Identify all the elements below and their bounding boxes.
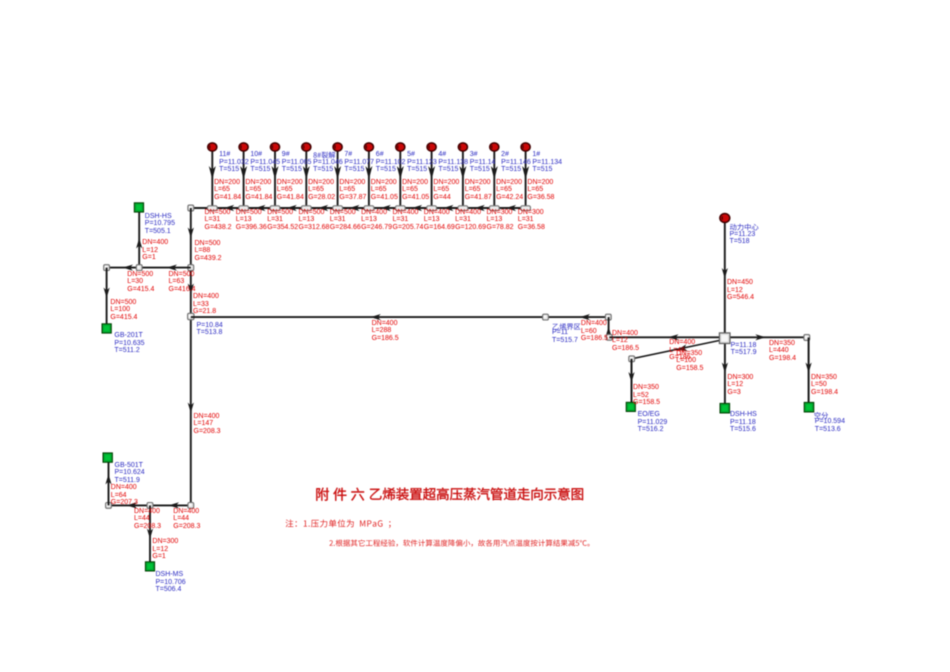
node header west corner [188, 205, 194, 211]
arrow down on middle trunk [188, 284, 194, 295]
label furnace 6# name/P/T [376, 151, 406, 174]
furnace 5# riser pipe [399, 151, 401, 209]
furnace 11# terminal circle [208, 143, 217, 151]
label branch seg DN=500 L=30 [127, 271, 154, 294]
note 1 (pressure unit) [286, 519, 391, 528]
terminal DSH-HS center green square [720, 403, 730, 413]
label furnace 8# feed pipe [308, 179, 335, 202]
arrow down on 3# riser [459, 166, 466, 180]
node corner bottom west [106, 503, 112, 509]
long pipe to ethylene area (DN=400 L=288) [191, 316, 609, 318]
arrow down on 10# riser [240, 166, 247, 180]
arrow left on bottom pipe seg2 [169, 502, 180, 508]
furnace 4# riser pipe [431, 151, 433, 209]
label power center P/T [730, 231, 756, 246]
label air separation name (空分) [814, 412, 828, 419]
furnace 8# riser pipe [305, 151, 307, 209]
label header segment 3 [267, 209, 298, 232]
label DSH-MS drop pipe [152, 538, 178, 561]
label air separation drop pipe [811, 374, 838, 397]
label furnace 2# name/P/T [501, 151, 531, 174]
furnace 2# riser pipe [493, 151, 495, 209]
label central junction P/T [731, 342, 757, 357]
label DSH-MS name/P/T [156, 571, 186, 594]
terminal air separation green square [804, 402, 814, 412]
node corner west [104, 265, 110, 271]
node tee DSH-MS [147, 503, 153, 509]
node tee 11# on header [207, 206, 217, 211]
label power center name (动力中心) [730, 224, 759, 231]
furnace 1# riser pipe [525, 151, 527, 209]
label header segment 7 [393, 209, 424, 232]
arrow down on air separation drop [806, 363, 812, 374]
pipe down to GB-201T [106, 268, 108, 324]
node ethylene tap [543, 314, 549, 320]
label ethylene area name (乙烯界区) [553, 323, 581, 330]
arrow down on 7# riser [334, 166, 341, 180]
arrow left on header segment 2 [255, 205, 266, 211]
node junction trunk/long line [188, 313, 194, 319]
arrow left near ethylene area [580, 314, 591, 320]
furnace 5# terminal circle [396, 143, 405, 151]
arrow left on header segment 5 [349, 205, 360, 211]
label long pipe DN=400 L=288 [372, 320, 399, 343]
label DSH-HS riser pipe [142, 239, 168, 262]
furnace 8# terminal circle [302, 143, 311, 151]
node corner EO/EG [629, 356, 635, 362]
label furnace 3# name/P/T [470, 151, 496, 174]
terminal power center red circle [720, 213, 730, 222]
trunk pipe upper (DN=500 L=88) [190, 208, 192, 268]
label furnace 1# name/P/T [532, 151, 562, 174]
arrow left on branch seg 1 [123, 265, 134, 271]
furnace 9# terminal circle [270, 143, 279, 151]
node tee 5# on header [395, 206, 405, 211]
label DSH-HS center name/P/T [730, 411, 757, 434]
trunk pipe middle (DN=400 L=33) [190, 268, 192, 317]
node corner trunk bottom [188, 503, 194, 509]
label bottom pipe seg left [134, 508, 161, 531]
label furnace 3# feed pipe [465, 179, 492, 202]
terminal DSH-HS (top-left) green square [134, 203, 143, 212]
arrow down on DSH-HS center drop [722, 363, 728, 374]
furnace 4# terminal circle [427, 143, 436, 151]
terminal GB-501T green square [103, 453, 112, 462]
arrow left on header segment 8 [443, 205, 454, 211]
label header segment 2 [236, 209, 267, 232]
furnace 1# terminal circle [521, 143, 530, 151]
arrow left on header segment 9 [474, 205, 485, 211]
label header segment 8 [424, 209, 455, 232]
arrow down on 1# riser [522, 166, 529, 180]
node corner air separation [804, 335, 810, 341]
label trunk middle pipe [193, 293, 219, 316]
label junction P/T (P=10.84) [197, 322, 223, 337]
arrow down to GB-201T [104, 288, 110, 299]
label bottom pipe seg right [173, 508, 200, 531]
label diagonal pipe A (overlapped) [669, 339, 695, 362]
title part 1 (附件六) [316, 488, 364, 501]
arrow left on branch seg 2 [167, 265, 178, 271]
label air separation pipe [769, 340, 796, 363]
label ethylene area P/T [552, 329, 578, 344]
label trunk upper pipe [195, 240, 222, 263]
furnace 3# riser pipe [462, 151, 464, 209]
furnace 6# terminal circle [364, 143, 373, 151]
arrow down on 2# riser [491, 166, 498, 180]
label header segment 10 [487, 209, 514, 232]
arrow left on header segment 3 [286, 205, 297, 211]
furnace 6# riser pipe [368, 151, 370, 209]
label EO/EG name/P/T [638, 411, 668, 434]
arrow on diagonal pipe [677, 344, 688, 353]
label furnace 5# name/P/T [407, 151, 437, 174]
note 2 (temperature note) [329, 539, 589, 546]
diagonal pipe to EO/EG [632, 340, 720, 358]
GB-501T riser pipe (DN=400 L=64) [108, 461, 110, 505]
node tee 9# on header [270, 206, 280, 211]
label header segment 1 [205, 209, 232, 232]
pipe zigzag to central junction [609, 336, 719, 338]
terminal GB-201T green square [102, 324, 111, 333]
title part 2 (乙烯装置超高压蒸汽管道走向示意图) [370, 488, 583, 501]
node tee trunk/DSH branch [188, 265, 194, 271]
arrow down on 6# riser [365, 166, 372, 180]
label GB-201T name/P/T [114, 332, 144, 355]
node tee 4# on header [427, 206, 437, 211]
arrow down on power center pipe [722, 268, 728, 279]
arrow up on DSH-HS riser [136, 238, 142, 249]
furnace 7# terminal circle [333, 143, 342, 151]
arrow down on 4# riser [428, 166, 435, 180]
arrow down on DSH-MS drop [147, 529, 153, 540]
node tee 2# on header [489, 206, 499, 211]
furnace 3# terminal circle [458, 143, 467, 151]
arrow up on zigzag vertical [606, 327, 612, 338]
label air separation P/T [815, 418, 845, 433]
label header segment 11 [518, 209, 545, 232]
label GB-501T riser pipe [111, 484, 138, 507]
pipe to air separation (DN=350 L=440) [730, 336, 807, 338]
label header segment 6 [361, 209, 392, 232]
trunk pipe lower (DN=400 L=147) [190, 317, 192, 506]
label furnace 6# feed pipe [371, 179, 398, 202]
node tee 8# on header [301, 206, 311, 211]
furnace 11# riser pipe [211, 151, 213, 209]
label power center pipe [727, 279, 754, 302]
label trunk lower pipe [194, 413, 221, 436]
label furnace 1# feed pipe [527, 179, 554, 202]
arrow down on EO/EG drop [628, 372, 634, 383]
central junction node [719, 333, 730, 344]
label DSH-HS center drop pipe [727, 374, 753, 397]
node tee 6# on header [364, 206, 374, 211]
label GB-501T name/P/T [115, 462, 145, 485]
node tee 3# on header [458, 206, 468, 211]
terminal EO/EG green square [626, 402, 635, 411]
label furnace 8# (8#裂解) [313, 152, 335, 159]
node tee 10# on header [239, 206, 249, 211]
terminal DSH-MS green square [145, 562, 154, 571]
arrow left on bottom pipe seg1 [127, 502, 138, 508]
arrow left on header segment 4 [318, 205, 329, 211]
label DSH-HS top-left name/P/T [145, 213, 175, 236]
bottom pipe west (DN=400 L=44 x2) [109, 504, 191, 506]
furnace 10# terminal circle [239, 143, 248, 151]
label branch seg DN=500 L=63 [169, 271, 196, 294]
arrow left on long pipe [370, 314, 381, 320]
label pipe to GB-201T [110, 299, 137, 322]
label furnace 10# name/P/T [250, 151, 280, 174]
label furnace 5# feed pipe [402, 179, 429, 202]
node corner zigzag top [605, 314, 611, 320]
label pipe DN=400 L=12 (junction west) [612, 330, 639, 353]
label furnace 2# feed pipe [496, 179, 523, 202]
label header segment 9 [455, 209, 486, 232]
arrow up on GB-501T riser [105, 474, 111, 485]
DSH-HS riser pipe [138, 212, 140, 268]
label furnace 7# name/P/T [344, 151, 374, 174]
label furnace 11# feed pipe [214, 179, 241, 202]
furnace 9# riser pipe [274, 151, 276, 209]
arrow down on upper trunk [188, 228, 194, 239]
DSH-HS center drop pipe (DN=300 L=12) [724, 344, 726, 404]
arrow left on header segment 10 [506, 205, 516, 211]
label pipe DN=400 L=60 [581, 320, 608, 343]
label diagonal pipe B (overlapped) [676, 350, 703, 373]
node corner zigzag bottom [606, 334, 612, 340]
label furnace 4# feed pipe [433, 179, 459, 202]
furnace 7# riser pipe [337, 151, 339, 209]
DSH-MS drop pipe (DN=300 L=12) [149, 505, 151, 561]
label EO/EG drop pipe [633, 384, 660, 407]
arrow down on 9# riser [272, 166, 279, 180]
furnace 10# riser pipe [243, 151, 245, 209]
label furnace 4# name/P/T [438, 151, 468, 174]
label furnace 8# P/T [313, 159, 343, 174]
zigzag vertical pipe [608, 317, 610, 337]
arrow left on header segment 6 [380, 205, 391, 211]
node tee 7# on header [333, 206, 343, 211]
furnace 2# terminal circle [490, 143, 499, 151]
arrow left on header segment 1 [224, 205, 235, 211]
arrow left on junction west pipe [668, 334, 679, 340]
arrow down on 5# riser [397, 166, 404, 180]
steam header pipe [191, 207, 528, 209]
label furnace 10# feed pipe [245, 179, 272, 202]
power center feed pipe [724, 223, 726, 333]
node tee 1# on header [521, 206, 531, 211]
label furnace 7# feed pipe [339, 179, 366, 202]
arrow down on 8# riser [303, 166, 310, 180]
air separation drop pipe (DN=350 L=50) [808, 338, 810, 403]
label furnace 9# feed pipe [277, 179, 304, 202]
EO/EG drop pipe (DN=350 L=52) [631, 359, 633, 403]
label furnace 11# name/P/T [219, 151, 249, 174]
arrow down on 11# riser [209, 166, 216, 180]
arrow left on header segment 7 [412, 205, 423, 211]
node tee DSH-HS [136, 265, 142, 271]
label header segment 4 [299, 209, 330, 232]
branch pipe to GB-201T (horizontal) [107, 267, 191, 269]
label furnace 9# name/P/T [282, 151, 312, 174]
arrow right on air separation pipe [755, 334, 766, 340]
arrow down on lower trunk [188, 403, 194, 414]
label header segment 5 [330, 209, 361, 232]
